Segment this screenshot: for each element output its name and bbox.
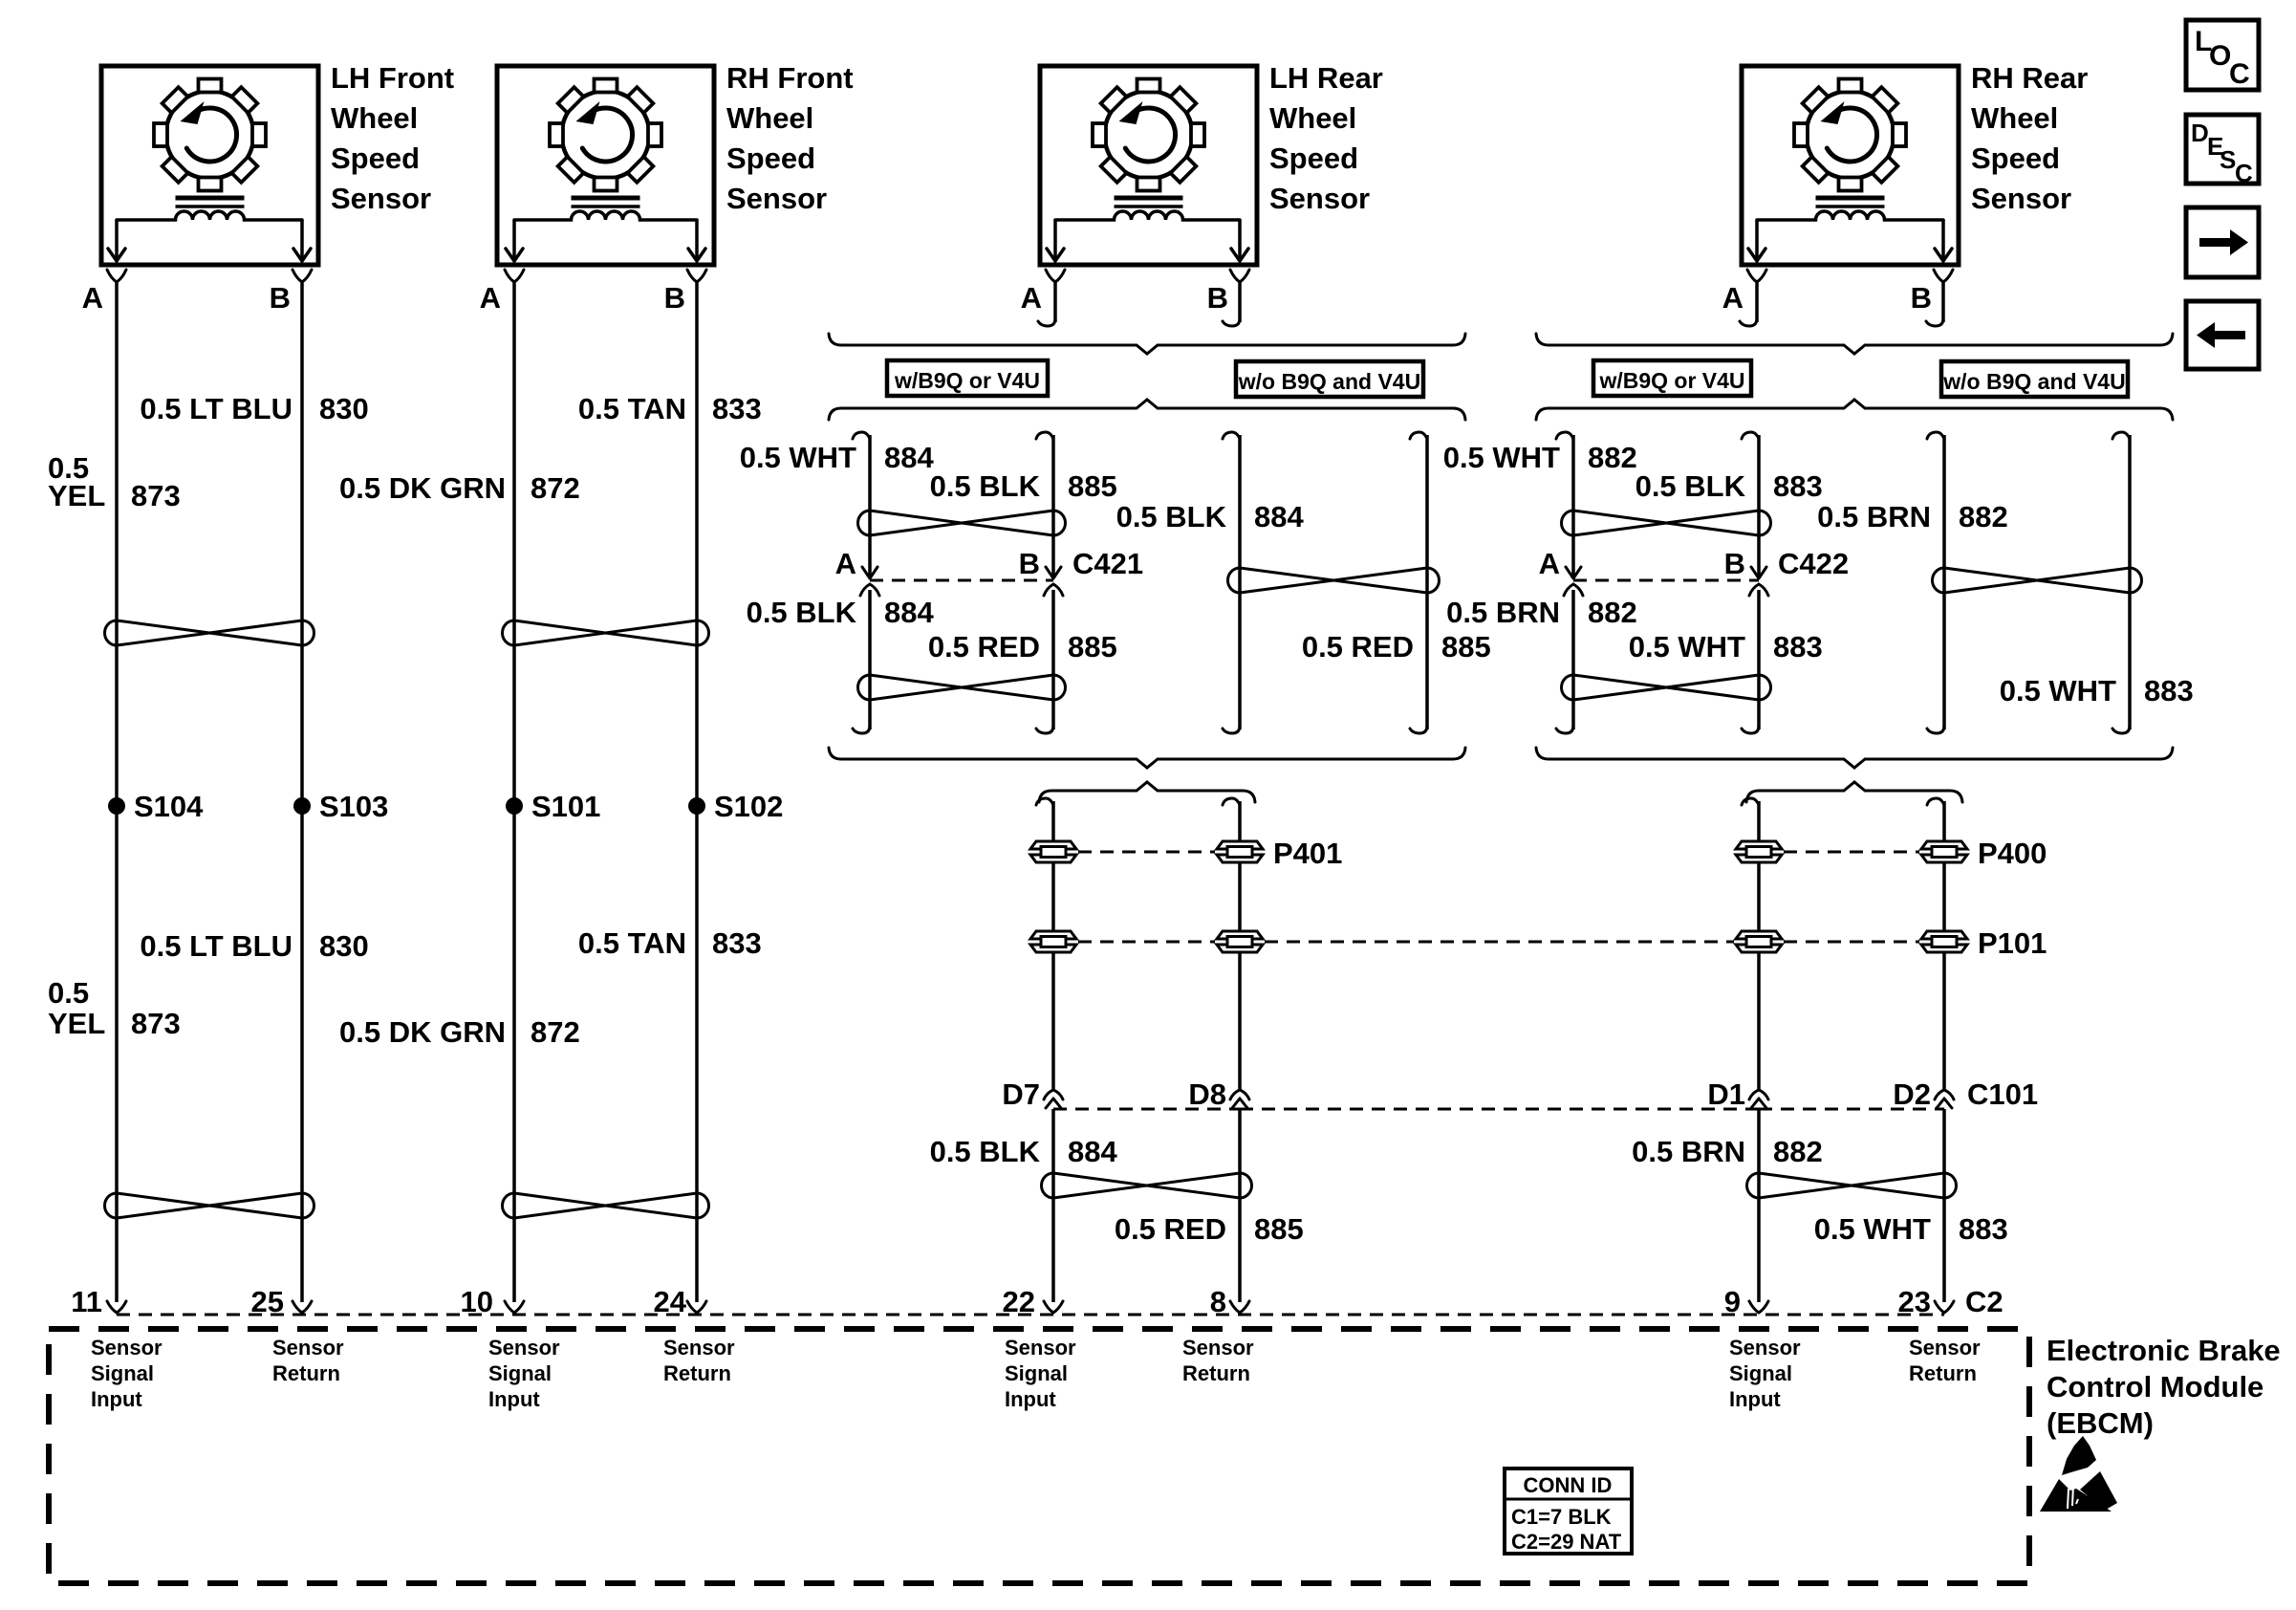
dashed link P101 (LH) [1078, 941, 1215, 944]
svg-text:C: C [2229, 58, 2250, 90]
svg-text:25: 25 [251, 1285, 284, 1318]
dashed link P400 [1784, 851, 1919, 854]
svg-text:Return: Return [272, 1361, 340, 1385]
label 873 (lower) [131, 1007, 181, 1040]
EBCM terminal pin 23 [1935, 1301, 1954, 1313]
label 0.5 LT BLU [140, 392, 292, 425]
label 0.5 TAN (lower) [578, 926, 686, 960]
svg-text:C2: C2 [1965, 1285, 2004, 1318]
wire option pair2 left (LH rear) [1223, 432, 1240, 733]
label 882 (RH pair2) [1959, 500, 2008, 533]
svg-text:11: 11 [71, 1285, 102, 1318]
pin function: Sensor Signal Input (9) [1729, 1336, 1801, 1411]
svg-text:S102: S102 [714, 790, 783, 823]
label 0.5 BRN (RH pair2) [1817, 500, 1931, 533]
label 830 [319, 392, 369, 425]
twisted pair (LH rear lower) [1042, 1173, 1252, 1198]
svg-text:Sensor: Sensor [1005, 1336, 1076, 1360]
svg-text:C: C [2235, 159, 2253, 187]
svg-text:Sensor: Sensor [1182, 1336, 1254, 1360]
EBCM terminal pin 10 [505, 1301, 524, 1313]
label 872 [531, 471, 580, 505]
label P400 [1978, 837, 2047, 870]
label 833 (lower) [712, 926, 762, 960]
svg-text:B: B [1724, 547, 1745, 580]
svg-text:YEL: YEL [48, 479, 105, 512]
label 885 (LH) [1068, 630, 1117, 664]
twisted pair (RH front) [503, 620, 709, 645]
svg-text:D7: D7 [1002, 1077, 1040, 1111]
svg-text:w/o B9Q and V4U: w/o B9Q and V4U [1942, 369, 2125, 394]
pin function: Sensor Signal Input (11) [91, 1336, 162, 1411]
connector C422 pin B label [1724, 547, 1745, 580]
label 883 (RH) [1773, 630, 1823, 664]
svg-text:Sensor: Sensor [726, 182, 827, 215]
svg-text:0.5 RED: 0.5 RED [1115, 1212, 1226, 1246]
svg-text:Sensor: Sensor [331, 182, 431, 215]
EBCM terminal pin 9 [1749, 1301, 1768, 1313]
svg-text:C1=7 BLK: C1=7 BLK [1511, 1505, 1612, 1529]
svg-text:883: 883 [1773, 630, 1823, 664]
label P401 [1273, 837, 1342, 870]
wire option pair2 right (RH rear) [2112, 432, 2130, 733]
svg-text:Wheel: Wheel [726, 101, 813, 135]
pin number 10 [461, 1285, 493, 1318]
svg-text:w/B9Q or V4U: w/B9Q or V4U [894, 368, 1040, 393]
brace bottom (RH rear) [1536, 748, 2173, 768]
label: RH Rear [1971, 61, 2088, 215]
connector C422 label [1778, 547, 1849, 580]
svg-text:YEL: YEL [48, 1007, 105, 1040]
brace bottom (LH rear) [829, 748, 1465, 768]
wire option pair1 left (RH rear) [1556, 432, 1573, 733]
label 0.5 RED (LH pair2) [1302, 630, 1414, 664]
grommet P101 left (LH) [1030, 931, 1076, 952]
label 0.5 LT BLU (lower) [140, 929, 292, 963]
pin function: Sensor Return (25) [272, 1336, 344, 1385]
label D7 [1002, 1077, 1040, 1111]
svg-text:24: 24 [654, 1285, 687, 1318]
wire LH rear return to EBCM [1223, 798, 1240, 1302]
svg-text:Sensor: Sensor [663, 1336, 735, 1360]
svg-text:B: B [664, 281, 685, 315]
svg-text:0.5 LT BLU: 0.5 LT BLU [140, 392, 292, 425]
svg-text:B: B [1019, 547, 1040, 580]
svg-text:Input: Input [488, 1387, 540, 1411]
label D1 [1707, 1077, 1745, 1111]
svg-text:0.5 WHT: 0.5 WHT [1629, 630, 1745, 664]
svg-text:Wheel: Wheel [1269, 101, 1356, 135]
svg-text:883: 883 [1773, 469, 1823, 503]
svg-text:C101: C101 [1967, 1077, 2038, 1111]
svg-text:C421: C421 [1072, 547, 1143, 580]
svg-text:882: 882 [1773, 1135, 1823, 1168]
label 884 (LH pair2) [1254, 500, 1304, 533]
svg-text:872: 872 [531, 471, 580, 505]
wire 830 LT BLU (LH front B, circuit 830) [300, 281, 304, 1302]
twisted pair (RH rear pair2) [1933, 568, 2142, 593]
label 883 (RH) [1773, 469, 1823, 503]
svg-text:A: A [480, 281, 501, 315]
pin number 24 [654, 1285, 687, 1318]
label 0.5 BLK (RH) [1635, 469, 1746, 503]
svg-text:0.5 DK GRN: 0.5 DK GRN [339, 471, 506, 505]
icon box arrow left [2186, 301, 2259, 369]
twisted pair upper (LH rear pair1) [857, 511, 1065, 535]
svg-text:Signal: Signal [1729, 1361, 1792, 1385]
twisted pair lower (RH rear pair1) [1561, 675, 1770, 700]
svg-text:10: 10 [461, 1285, 493, 1318]
svg-text:Sensor: Sensor [1729, 1336, 1801, 1360]
brace small (RH rear) [1746, 782, 1962, 802]
connector C422 terminals [1564, 567, 1768, 596]
label 833 [712, 392, 762, 425]
pin function: Sensor Return (23) [1909, 1336, 1981, 1385]
dashed link P101 middle [1265, 941, 1734, 944]
svg-text:S101: S101 [531, 790, 600, 823]
label 872 (lower) [531, 1015, 580, 1049]
label C101 [1967, 1077, 2038, 1111]
svg-text:Signal: Signal [91, 1361, 154, 1385]
label C2 [1965, 1285, 2004, 1318]
label 0.5 TAN [578, 392, 686, 425]
brace lower (LH rear) [829, 400, 1465, 420]
svg-text:C422: C422 [1778, 547, 1849, 580]
splice S103 [293, 790, 388, 823]
EBCM module box [49, 1329, 2029, 1583]
wire option pair2 right (LH rear) [1410, 432, 1427, 733]
pin B label (RH Front) [664, 281, 685, 315]
pin B label (LH Rear) [1207, 281, 1228, 315]
svg-text:Wheel: Wheel [331, 101, 418, 135]
wire 873 YEL (LH front A, circuit 873) [115, 281, 119, 1302]
label 0.5 DK GRN [339, 471, 506, 505]
pin A label (RH Front) [480, 281, 501, 315]
svg-text:0.5: 0.5 [48, 976, 89, 1010]
svg-text:P101: P101 [1978, 926, 2047, 960]
EBCM terminal pin 22 [1044, 1301, 1063, 1313]
svg-text:A: A [1539, 547, 1560, 580]
wire RH rear return to EBCM [1927, 798, 1944, 1302]
svg-text:885: 885 [1068, 469, 1117, 503]
svg-text:A: A [1021, 281, 1042, 315]
wire option pair1 right (LH rear) [1036, 432, 1053, 733]
icon box arrow right [2186, 207, 2259, 277]
svg-text:884: 884 [1254, 500, 1304, 533]
brace upper (LH rear) [829, 334, 1465, 354]
splice S104 [108, 790, 204, 823]
svg-text:884: 884 [884, 441, 934, 474]
svg-text:Sensor: Sensor [1269, 182, 1370, 215]
svg-text:RH Front: RH Front [726, 61, 854, 95]
icon box DESC [2186, 115, 2259, 187]
connector C421 terminals [860, 567, 1063, 596]
svg-text:0.5 RED: 0.5 RED [1302, 630, 1414, 664]
svg-text:0.5 LT BLU: 0.5 LT BLU [140, 929, 292, 963]
svg-text:0.5 BRN: 0.5 BRN [1817, 500, 1931, 533]
label: RH Front [726, 61, 854, 215]
label 0.5 RED (LH) [928, 630, 1040, 664]
svg-text:0.5 BRN: 0.5 BRN [1632, 1135, 1745, 1168]
svg-text:P400: P400 [1978, 837, 2047, 870]
pin A label (RH Rear) [1722, 281, 1744, 315]
svg-text:Return: Return [1182, 1361, 1250, 1385]
svg-text:(EBCM): (EBCM) [2047, 1406, 2154, 1440]
svg-text:882: 882 [1588, 441, 1637, 474]
dashed link C101 middle [1240, 1108, 1759, 1111]
EBCM terminal pin 8 [1230, 1301, 1249, 1313]
wheel speed sensor RH Front [497, 66, 714, 282]
svg-text:Sensor: Sensor [1909, 1336, 1981, 1360]
svg-text:873: 873 [131, 479, 181, 512]
label 0.5 WHT (RH) [1443, 441, 1560, 474]
svg-text:RH Rear: RH Rear [1971, 61, 2088, 95]
svg-text:0.5 WHT: 0.5 WHT [1814, 1212, 1931, 1246]
twisted pair (LH rear pair2) [1227, 568, 1439, 593]
svg-text:Sensor: Sensor [91, 1336, 162, 1360]
svg-text:0.5 RED: 0.5 RED [928, 630, 1040, 664]
label 885 (LH pair2) [1441, 630, 1491, 664]
svg-text:A: A [835, 547, 856, 580]
pin A label (LH Front) [82, 281, 103, 315]
svg-text:882: 882 [1959, 500, 2008, 533]
svg-text:Speed: Speed [331, 141, 420, 175]
wheel speed sensor LH Front [101, 66, 318, 282]
label D8 [1188, 1077, 1226, 1111]
svg-text:Speed: Speed [1269, 141, 1358, 175]
svg-text:833: 833 [712, 392, 762, 425]
brace lower (RH rear) [1536, 400, 2173, 420]
connector C421 label [1072, 547, 1143, 580]
pin function: Sensor Return (24) [663, 1336, 735, 1385]
svg-text:LH Rear: LH Rear [1269, 61, 1383, 95]
svg-text:873: 873 [131, 1007, 181, 1040]
svg-text:Input: Input [91, 1387, 142, 1411]
label 830 (lower) [319, 929, 369, 963]
svg-text:0.5 BLK: 0.5 BLK [1116, 500, 1227, 533]
connector C2 dashed line [117, 1314, 1944, 1316]
wire stub pin B (LH rear) [1223, 281, 1240, 326]
label 882 (RH) [1588, 596, 1637, 629]
svg-text:Signal: Signal [1005, 1361, 1068, 1385]
svg-text:Speed: Speed [1971, 141, 2060, 175]
splice S101 [506, 790, 600, 823]
label 0.5 BLK (LH) [747, 596, 857, 629]
label 883 (RH lower) [1959, 1212, 2008, 1246]
label: LH Rear [1269, 61, 1383, 215]
svg-text:883: 883 [2144, 674, 2194, 707]
label 885 (LH lower) [1254, 1212, 1304, 1246]
wheel speed sensor RH Rear [1742, 66, 1959, 282]
svg-text:830: 830 [319, 392, 369, 425]
pin number 23 [1898, 1285, 1931, 1318]
connector C421 pin B label [1019, 547, 1040, 580]
svg-text:D2: D2 [1893, 1077, 1931, 1111]
svg-text:D8: D8 [1188, 1077, 1226, 1111]
option label w/B9Q or V4U (LH) [887, 360, 1048, 396]
svg-text:885: 885 [1068, 630, 1117, 664]
label 882 (RH lower) [1773, 1135, 1823, 1168]
grommet P400 left [1736, 841, 1782, 862]
wire LH rear signal to EBCM [1036, 798, 1053, 1302]
svg-text:Sensor: Sensor [1971, 182, 2071, 215]
pin number 8 [1210, 1285, 1226, 1318]
svg-text:882: 882 [1588, 596, 1637, 629]
label 0.5 BRN (RH) [1446, 596, 1560, 629]
label 0.5 WHT (RH lower) [1814, 1212, 1931, 1246]
pin number 22 [1003, 1285, 1035, 1318]
connector C422 pin A label [1539, 547, 1560, 580]
svg-text:830: 830 [319, 929, 369, 963]
svg-text:833: 833 [712, 926, 762, 960]
pin number 11 [71, 1285, 102, 1318]
svg-text:w/o B9Q and V4U: w/o B9Q and V4U [1238, 369, 1420, 394]
dashed link P401 [1078, 851, 1215, 854]
icon box LOC [2186, 20, 2259, 90]
label P101 [1978, 926, 2047, 960]
svg-text:0.5 DK GRN: 0.5 DK GRN [339, 1015, 506, 1049]
svg-text:0.5 BRN: 0.5 BRN [1446, 596, 1560, 629]
twisted pair upper (RH rear pair1) [1561, 511, 1770, 535]
label 0.5 WHT (RH pair2) [2000, 674, 2116, 707]
wire RH rear signal to EBCM [1742, 798, 1759, 1302]
svg-text:883: 883 [1959, 1212, 2008, 1246]
grommet P401 left [1030, 841, 1076, 862]
ESD sensitivity symbol [2040, 1436, 2117, 1512]
svg-text:884: 884 [884, 596, 934, 629]
label 0.5 YEL (lower) [48, 976, 105, 1040]
label 0.5 BLK (LH) [930, 469, 1041, 503]
label 883 (RH pair2) [2144, 674, 2194, 707]
svg-text:Control Module: Control Module [2047, 1370, 2264, 1403]
label 0.5 WHT (LH) [740, 441, 856, 474]
svg-text:LH Front: LH Front [331, 61, 454, 95]
svg-text:Return: Return [1909, 1361, 1977, 1385]
pin function: Sensor Return (8) [1182, 1336, 1254, 1385]
svg-text:Input: Input [1729, 1387, 1781, 1411]
svg-text:Sensor: Sensor [272, 1336, 344, 1360]
CONN ID table [1505, 1469, 1632, 1554]
label 0.5 YEL [48, 451, 105, 512]
svg-text:0.5 WHT: 0.5 WHT [2000, 674, 2116, 707]
label: LH Front [331, 61, 454, 215]
svg-text:0.5 WHT: 0.5 WHT [740, 441, 856, 474]
svg-text:CONN ID: CONN ID [1524, 1473, 1613, 1497]
svg-text:S103: S103 [319, 790, 388, 823]
EBCM terminal pin 24 [687, 1301, 706, 1313]
connector C421 pin A label [835, 547, 856, 580]
grommet P101 right (RH) [1921, 931, 1967, 952]
svg-text:0.5 WHT: 0.5 WHT [1443, 441, 1560, 474]
connector C101 terminals (LH) [1044, 1090, 1249, 1109]
label 0.5 RED (LH lower) [1115, 1212, 1226, 1246]
pin function: Sensor Signal Input (10) [488, 1336, 560, 1411]
wheel speed sensor LH Rear [1040, 66, 1257, 282]
twisted pair (LH front) [105, 620, 314, 645]
option label w/o B9Q and V4U (RH) [1941, 361, 2128, 397]
grommet P101 left (RH) [1736, 931, 1782, 952]
pin B label (LH Front) [270, 281, 291, 315]
dashed link P101 (RH) [1784, 941, 1919, 944]
svg-text:B: B [1911, 281, 1932, 315]
EBCM terminal pin 25 [292, 1301, 312, 1313]
svg-text:884: 884 [1068, 1135, 1117, 1168]
brace upper (RH rear) [1536, 334, 2173, 354]
label 0.5 BLK (LH lower) [930, 1135, 1041, 1168]
brace small (LH rear) [1039, 782, 1255, 802]
wire 872 DK GRN (RH front A, circuit 872) [512, 281, 516, 1302]
option label w/B9Q or V4U (RH) [1593, 360, 1751, 396]
svg-text:0.5 TAN: 0.5 TAN [578, 392, 686, 425]
label 885 (LH) [1068, 469, 1117, 503]
wire option pair2 left (RH rear) [1927, 432, 1944, 733]
wire stub pin A (LH rear) [1038, 281, 1055, 326]
grommet P101 right (LH) [1217, 931, 1263, 952]
twisted pair (RH front lower) [503, 1193, 709, 1218]
pin number 9 [1724, 1285, 1741, 1318]
svg-text:Return: Return [663, 1361, 731, 1385]
label 882 (RH) [1588, 441, 1637, 474]
svg-text:B: B [270, 281, 291, 315]
svg-text:885: 885 [1441, 630, 1491, 664]
grommet P401 right [1217, 841, 1263, 862]
svg-text:B: B [1207, 281, 1228, 315]
option label w/o B9Q and V4U (LH) [1236, 361, 1423, 397]
svg-text:0.5 TAN: 0.5 TAN [578, 926, 686, 960]
svg-text:0.5 BLK: 0.5 BLK [747, 596, 857, 629]
svg-text:Signal: Signal [488, 1361, 552, 1385]
svg-text:Electronic Brake: Electronic Brake [2047, 1334, 2281, 1367]
wire stub pin B (RH rear) [1926, 281, 1943, 326]
label 884 (LH) [884, 441, 934, 474]
label 884 (LH) [884, 596, 934, 629]
svg-text:0.5 BLK: 0.5 BLK [930, 1135, 1041, 1168]
svg-text:Sensor: Sensor [488, 1336, 560, 1360]
label 884 (LH lower) [1068, 1135, 1117, 1168]
svg-text:S104: S104 [134, 790, 204, 823]
pin function: Sensor Signal Input (22) [1005, 1336, 1076, 1411]
EBCM terminal pin 11 [107, 1301, 126, 1313]
svg-text:S: S [2220, 145, 2236, 174]
splice S102 [688, 790, 783, 823]
svg-text:0.5 BLK: 0.5 BLK [1635, 469, 1746, 503]
svg-text:O: O [2209, 40, 2231, 72]
twisted pair (LH front lower) [105, 1193, 314, 1218]
wire option pair1 right (RH rear) [1742, 432, 1759, 733]
svg-text:C2=29 NAT: C2=29 NAT [1511, 1530, 1622, 1554]
wire 833 TAN (RH front B, circuit 833) [695, 281, 699, 1302]
label 0.5 BRN (RH lower) [1632, 1135, 1745, 1168]
svg-text:A: A [82, 281, 103, 315]
svg-text:872: 872 [531, 1015, 580, 1049]
svg-text:P401: P401 [1273, 837, 1342, 870]
label 873 [131, 479, 181, 512]
svg-text:A: A [1722, 281, 1744, 315]
label D2 [1893, 1077, 1931, 1111]
twisted pair (RH rear lower) [1747, 1173, 1957, 1198]
svg-text:D: D [2191, 119, 2209, 147]
wire option pair1 left (LH rear) [853, 432, 870, 733]
svg-text:885: 885 [1254, 1212, 1304, 1246]
label Electronic Brake Control Module (EBCM) [2047, 1334, 2281, 1440]
grommet P400 right [1921, 841, 1967, 862]
label 0.5 BLK (LH pair2) [1116, 500, 1227, 533]
label 0.5 WHT (RH) [1629, 630, 1745, 664]
svg-text:0.5 BLK: 0.5 BLK [930, 469, 1041, 503]
svg-text:Input: Input [1005, 1387, 1056, 1411]
svg-text:Wheel: Wheel [1971, 101, 2058, 135]
connector C101 terminals (RH) [1749, 1090, 1954, 1109]
